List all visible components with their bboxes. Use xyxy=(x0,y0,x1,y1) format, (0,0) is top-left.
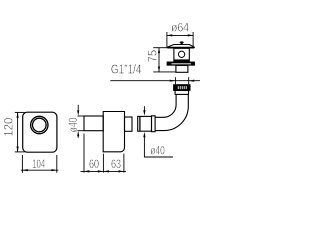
dimension ø64 arrows xyxy=(167,34,194,36)
dimension ø40 inlet pipe extension edges xyxy=(77,105,84,138)
dimension 104 extension lines xyxy=(21,155,58,173)
nut knurl dashes xyxy=(178,86,186,89)
coupling leader ø40 lower line xyxy=(144,136,173,157)
G thread arrows xyxy=(170,80,195,82)
dimension ø40 inlet arrows xyxy=(77,110,79,136)
dimension 60/63 extension lines xyxy=(81,134,127,173)
svg-text:ø40: ø40 xyxy=(66,117,80,132)
valve knob cap xyxy=(180,42,184,43)
valve body bottom band xyxy=(174,59,189,61)
valve tail xyxy=(176,65,188,72)
side view outlet tab xyxy=(125,117,133,131)
valve cap roof outline xyxy=(167,45,195,48)
svg-text:ø40: ø40 xyxy=(150,144,165,158)
G thread tick right xyxy=(188,77,190,84)
dimension 120 line xyxy=(15,112,25,151)
coupling left rim line xyxy=(139,116,141,131)
dimension 75 arrows xyxy=(158,48,160,73)
dimension 60/63 arrows xyxy=(84,170,124,172)
side view inlet pipe xyxy=(84,116,103,131)
nut skirt xyxy=(175,91,188,95)
dimension 75 line xyxy=(153,48,175,72)
dimension ø64 extension lines xyxy=(167,32,193,47)
front view plate (rounded square) xyxy=(23,112,57,152)
svg-text:63: 63 xyxy=(111,157,121,171)
valve knob base line xyxy=(178,44,185,46)
valve body circle xyxy=(178,51,184,57)
coupling right rim xyxy=(152,116,156,132)
svg-text:ø64: ø64 xyxy=(171,21,189,35)
G thread tick left xyxy=(174,77,176,84)
svg-text:60: 60 xyxy=(89,157,99,171)
valve body xyxy=(174,48,189,61)
svg-text:75: 75 xyxy=(146,50,160,63)
valve flange xyxy=(167,62,195,65)
elbow pipe xyxy=(155,95,188,131)
overflow ring inner white slit xyxy=(32,117,48,133)
side view trap body xyxy=(103,112,124,152)
coupling sleeve xyxy=(138,116,152,131)
overflow ring dark ring xyxy=(32,117,48,133)
dimension 120 arrows xyxy=(17,112,19,152)
top view valve knob stem xyxy=(181,43,183,45)
G thread leader line xyxy=(110,80,200,82)
nut (knurled) xyxy=(174,85,191,91)
valve cap dark rim band xyxy=(166,47,195,48)
dimension 104 arrows xyxy=(22,169,57,171)
svg-text:G1″1/4: G1″1/4 xyxy=(111,63,142,77)
coupling leader ø40 upper arrow xyxy=(143,106,145,111)
svg-text:104: 104 xyxy=(32,157,45,171)
svg-text:120: 120 xyxy=(2,117,16,136)
valve flange white slit xyxy=(172,62,192,65)
